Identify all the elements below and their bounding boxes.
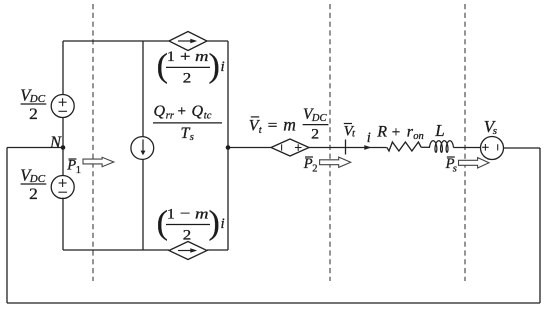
minus sign in top VDC source — [58, 110, 67, 112]
wire left drop — [6, 148, 8, 304]
dashed section boundary 1 — [92, 4, 94, 281]
svg-text:2: 2 — [312, 163, 317, 174]
svg-text:i: i — [367, 130, 371, 146]
wire top rail right segment — [207, 40, 228, 42]
svg-text:Q: Q — [192, 103, 204, 120]
dependent current source diamond bottom — [169, 242, 207, 260]
wire bottom rail left segment — [63, 249, 169, 251]
current source Qrr circle — [131, 137, 154, 160]
svg-text:2: 2 — [311, 127, 319, 143]
svg-text:s: s — [190, 132, 194, 143]
svg-text:Q: Q — [154, 103, 166, 120]
wire resistor to inductor — [421, 146, 430, 148]
svg-text:DC: DC — [311, 113, 328, 124]
wire output to diamond — [228, 147, 271, 149]
dashed section boundary 2 — [329, 4, 331, 281]
minus sign in bottom VDC source — [58, 191, 67, 193]
label Ps — [445, 156, 457, 174]
svg-text:tc: tc — [204, 111, 212, 122]
svg-text:−: − — [180, 206, 191, 222]
svg-text:+: + — [178, 104, 186, 120]
resistor R+ron — [387, 142, 421, 151]
junction dot output node — [226, 145, 231, 150]
voltage source VDC/2 bottom — [51, 176, 74, 199]
label P1 — [66, 158, 81, 176]
svg-text:t: t — [259, 125, 263, 136]
minus bar in dependent voltage diamond — [281, 144, 283, 150]
svg-text:P: P — [303, 156, 313, 172]
svg-text:L: L — [434, 121, 444, 140]
plus sign in top VDC source — [58, 98, 497, 192]
svg-text:i: i — [221, 59, 225, 75]
svg-text:N: N — [49, 133, 62, 152]
label (1+m)/2 i top — [157, 48, 225, 87]
svg-text:2: 2 — [29, 186, 38, 203]
wire left rail lower — [62, 198, 64, 250]
minus bar in Vs source — [497, 144, 499, 150]
svg-text:2: 2 — [183, 70, 192, 86]
power flow arrow Ps — [459, 158, 490, 168]
wire inductor to source — [454, 147, 481, 149]
svg-text:m: m — [283, 114, 296, 134]
junction node N dot — [61, 145, 66, 150]
wire right riser — [539, 148, 541, 303]
voltage source Vs — [481, 137, 504, 160]
svg-text:=: = — [268, 118, 278, 134]
label VDC/2 top — [20, 85, 46, 123]
svg-text:+: + — [392, 124, 400, 140]
svg-text:s: s — [493, 125, 497, 137]
wire source to right corner — [504, 147, 541, 149]
power flow arrow P1 — [83, 157, 114, 166]
svg-text:1: 1 — [76, 165, 81, 176]
plus sign in Vs source — [482, 146, 489, 148]
wire diamond to resistor — [309, 147, 387, 149]
svg-text:m: m — [195, 206, 209, 222]
wire node N to left — [7, 147, 63, 149]
voltage source VDC/2 top — [51, 95, 74, 118]
wire top rail left segment — [63, 40, 169, 42]
label R + ron — [376, 124, 424, 142]
label P2 — [303, 156, 318, 174]
svg-text:t: t — [352, 129, 356, 140]
svg-text:i: i — [221, 216, 225, 232]
svg-text:2: 2 — [183, 227, 192, 243]
wire left rail upper — [62, 41, 64, 95]
dependent current source diamond top — [169, 32, 207, 51]
current direction arrow i — [364, 145, 371, 150]
label Qrr+Qtc/Ts — [153, 103, 222, 143]
plus sign in dependent voltage diamond — [295, 147, 302, 149]
svg-text:+: + — [180, 49, 191, 65]
label Vt = m VDC/2 equation — [249, 106, 329, 143]
svg-text:2: 2 — [29, 106, 38, 123]
current source down arrow — [141, 139, 146, 155]
wire middle branch lower — [142, 159, 144, 250]
svg-text:): ) — [209, 48, 220, 85]
wire middle branch upper — [142, 41, 144, 137]
svg-text:1: 1 — [167, 49, 175, 65]
voltage tick Vt — [345, 140, 347, 155]
svg-text:): ) — [209, 205, 220, 242]
svg-text:rr: rr — [166, 111, 175, 122]
inductor L — [430, 141, 454, 153]
label Vs — [484, 117, 497, 137]
wire right rail — [227, 41, 229, 250]
wire bottom rail right segment — [207, 249, 228, 251]
power flow arrow P2 — [320, 157, 351, 167]
dashed section boundary 3 — [464, 4, 466, 281]
wire bottom return — [7, 302, 540, 304]
svg-text:s: s — [453, 163, 457, 174]
svg-text:1: 1 — [167, 206, 175, 222]
label VDC/2 bottom — [20, 165, 46, 203]
svg-text:on: on — [413, 131, 424, 142]
svg-text:m: m — [195, 49, 209, 65]
wire left rail middle — [62, 118, 64, 177]
label (1-m)/2 i bottom — [157, 205, 225, 244]
svg-text:R: R — [376, 124, 387, 141]
svg-text:P: P — [66, 158, 76, 174]
dependent voltage source diamond — [271, 139, 309, 156]
svg-text:DC: DC — [29, 93, 46, 105]
plus sign in bottom VDC source — [59, 182, 67, 184]
label Vt at tick — [344, 123, 356, 139]
svg-text:DC: DC — [29, 173, 46, 185]
